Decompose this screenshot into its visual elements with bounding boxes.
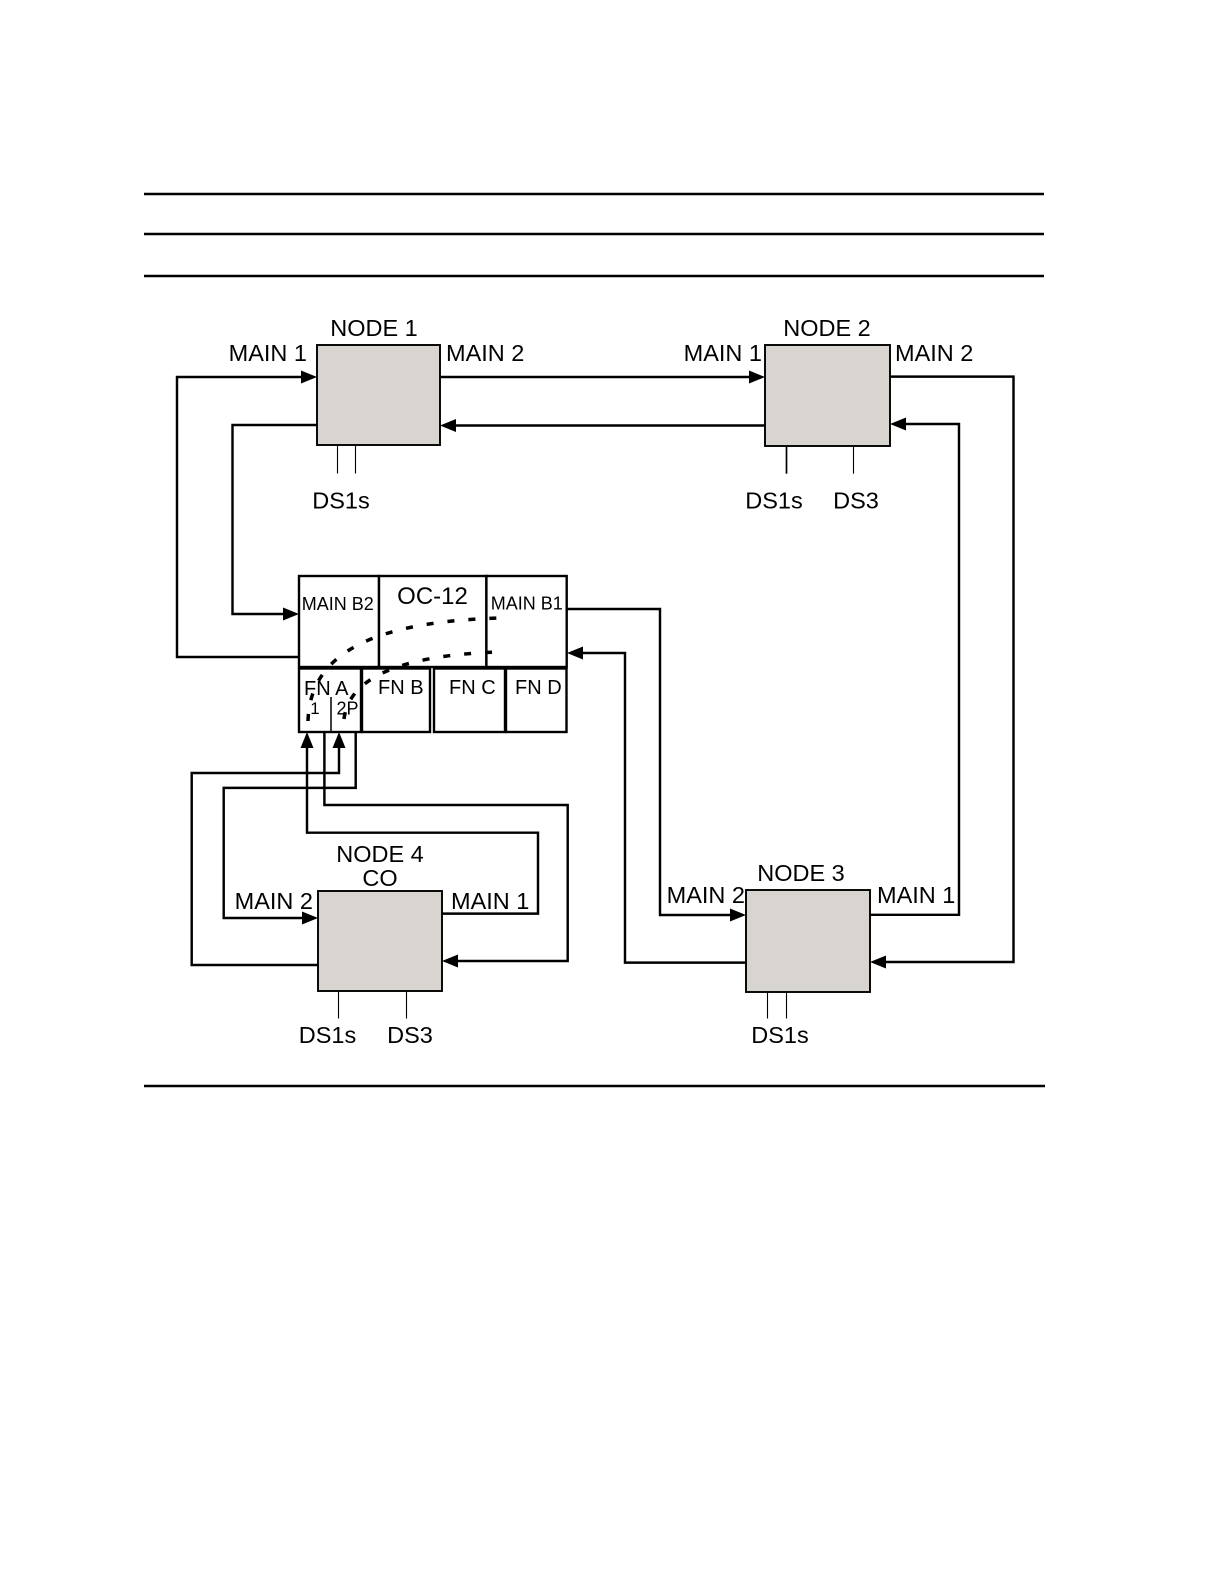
footer rule — [144, 1085, 1045, 1088]
wire MAIN B1 out to NODE3 MAIN2 in — [567, 609, 731, 915]
svg-text:DS1s: DS1s — [751, 1022, 808, 1048]
node NODE2 box — [765, 345, 890, 446]
svg-text:NODE 1: NODE 1 — [330, 315, 418, 341]
wire FN A divider — [330, 697, 332, 732]
node FN B box — [362, 669, 430, 733]
wire MAIN B2 out to NODE1 MAIN1 in — [177, 377, 302, 657]
wire FN A 1 out to NODE4 MAIN1 in — [324, 732, 567, 961]
node MAIN B2 box — [299, 576, 379, 667]
header rule 1 — [144, 193, 1044, 196]
svg-text:CO: CO — [362, 865, 397, 891]
svg-text:FN C: FN C — [449, 677, 496, 699]
wire NODE4 MAIN2 out to FN A 2P in — [192, 747, 339, 965]
svg-text:DS1s: DS1s — [299, 1022, 356, 1048]
wire NODE1 MAIN2 out to NODE2 MAIN1 in — [440, 376, 750, 378]
svg-text:DS3: DS3 — [387, 1022, 433, 1048]
svg-text:MAIN 2: MAIN 2 — [895, 340, 973, 366]
svg-text:MAIN 2: MAIN 2 — [235, 888, 313, 914]
svg-text:NODE 4: NODE 4 — [336, 841, 424, 867]
svg-text:MAIN B2: MAIN B2 — [302, 594, 374, 614]
node FN C box — [434, 669, 505, 733]
svg-text:MAIN 1: MAIN 1 — [229, 340, 307, 366]
wire NODE3 DS1s stub a — [767, 992, 769, 1019]
svg-text:MAIN B1: MAIN B1 — [491, 594, 563, 614]
wire NODE1 DS1s stub a — [337, 445, 339, 474]
wire NODE2 out to NODE1 MAIN2 in — [455, 424, 765, 426]
wire NODE2 MAIN2 out to NODE3 MAIN1 in — [885, 377, 1014, 962]
node NODE4 box — [318, 891, 442, 991]
svg-text:OC-12: OC-12 — [397, 583, 468, 610]
wire NODE4 DS1s stub — [338, 991, 340, 1019]
svg-text:FN B: FN B — [378, 677, 424, 699]
wire NODE1 out to MAIN B2 in — [233, 425, 318, 614]
wire NODE2 DS3 stub — [853, 446, 855, 474]
wire dashed arc FN A 1 to MAIN B1 — [308, 618, 500, 721]
svg-text:1: 1 — [310, 699, 319, 718]
header rule 2 — [144, 233, 1044, 236]
svg-text:MAIN 1: MAIN 1 — [877, 882, 955, 908]
node FN A box — [299, 669, 361, 733]
node NODE3 box — [746, 890, 870, 992]
svg-text:NODE 2: NODE 2 — [783, 315, 871, 341]
wire dashed arc FN A 2P to MAIN B1 — [344, 652, 497, 719]
svg-text:MAIN 1: MAIN 1 — [451, 888, 529, 914]
node NODE1 box — [317, 345, 440, 445]
svg-text:DS3: DS3 — [833, 488, 879, 514]
wire FN A 2P out to NODE4 MAIN2 in — [224, 732, 356, 918]
node MAIN B1 box — [486, 576, 566, 667]
svg-text:MAIN 1: MAIN 1 — [684, 340, 762, 366]
wire NODE3 MAIN1 out to NODE2 MAIN2 in — [870, 424, 959, 915]
wire NODE4 MAIN1 out to FN A 1 in — [307, 747, 538, 914]
wire NODE1 DS1s stub b — [355, 445, 357, 474]
svg-text:DS1s: DS1s — [745, 488, 802, 514]
wire NODE4 DS3 stub — [406, 991, 408, 1019]
wire NODE3 MAIN2 out to MAIN B1 in — [582, 653, 746, 963]
svg-text:2P: 2P — [337, 699, 359, 719]
svg-text:DS1s: DS1s — [312, 488, 369, 514]
wire NODE2 DS1s stub — [786, 446, 788, 474]
svg-text:MAIN 2: MAIN 2 — [667, 882, 745, 908]
node FN D box — [506, 669, 567, 733]
svg-text:NODE 3: NODE 3 — [757, 860, 845, 886]
svg-text:MAIN 2: MAIN 2 — [446, 340, 524, 366]
header rule 3 — [144, 275, 1044, 278]
wire NODE3 DS1s stub b — [786, 992, 788, 1019]
node OC-12 box — [379, 576, 486, 667]
svg-text:FN D: FN D — [515, 677, 562, 699]
